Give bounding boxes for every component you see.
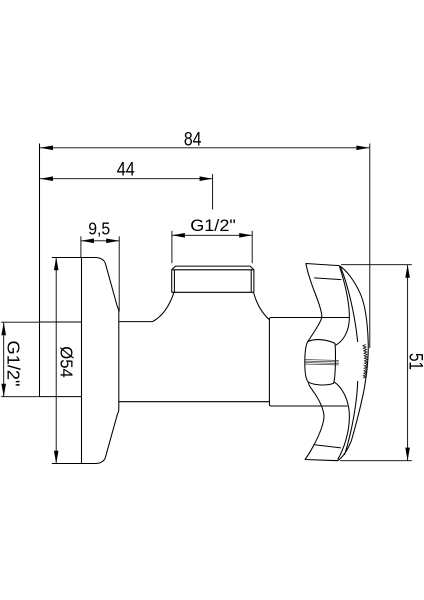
svg-text:51: 51 [405,353,424,370]
svg-text:84: 84 [184,129,202,151]
svg-text:G1/2": G1/2" [190,216,236,235]
svg-text:Ø54: Ø54 [57,346,77,378]
svg-text:44: 44 [117,159,136,180]
svg-text:9,5: 9,5 [88,219,110,239]
svg-text:G1/2": G1/2" [4,341,24,387]
